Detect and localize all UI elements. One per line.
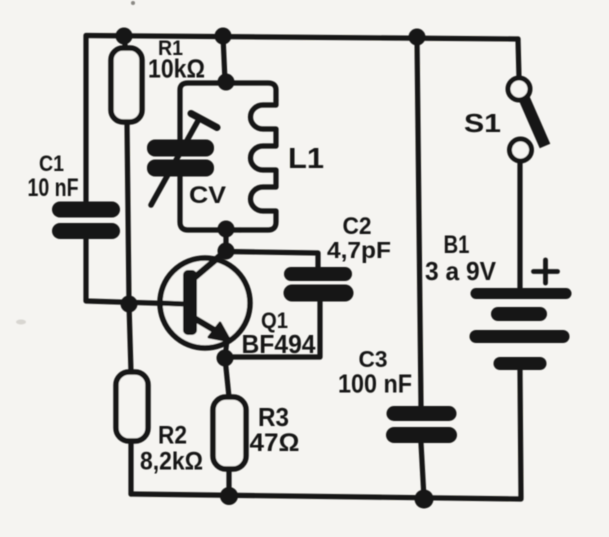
capacitor C1 [60,210,112,232]
wire R1 top lead [122,36,127,48]
svg-text:BF494: BF494 [242,329,317,359]
wire tank loop bottom and CV lower lead [180,172,240,230]
junction node bottom C3 [415,490,434,509]
junction node bottom R3 [220,487,238,505]
switch S1 bottom contact [510,139,532,161]
resistor R2 [116,372,148,441]
wire R1 bottom to R2 top [127,122,131,372]
svg-text:L1: L1 [288,143,324,175]
svg-text:C1: C1 [39,151,64,176]
wire bottom rail [131,494,521,499]
capacitor CV plates [147,140,214,177]
svg-text:10kΩ: 10kΩ [148,54,205,84]
junction node tank bottom [218,221,235,238]
battery B1 plate short bottom [500,357,540,370]
wire middle branch from top rail [223,36,225,81]
resistor R3 [213,397,246,469]
svg-text:R3: R3 [258,404,289,432]
wire top rail [86,36,518,40]
svg-text:C2: C2 [343,213,372,240]
junction node tank top [218,74,235,91]
junction node top middle [215,28,232,45]
wire C3 branch from top rail [417,37,421,406]
battery B1 plate long mid [476,330,563,343]
svg-text:10 nF: 10 nF [28,174,79,202]
junction node emitter [217,350,234,367]
wire left rail [83,36,88,204]
svg-text:S1: S1 [464,108,501,138]
svg-text:B1: B1 [444,231,470,259]
battery B1 plate short [498,307,540,321]
trimmer CV arrow [151,114,217,206]
transistor Q1 collector stroke [194,251,226,278]
svg-text:CV: CV [189,182,226,209]
wire C3 bottom lead [421,443,424,498]
wire tank loop left and top [180,83,276,141]
transistor Q1 base lead [160,303,183,304]
wire top rail right corner to S1 [518,39,519,78]
svg-text:R2: R2 [158,422,187,450]
wire collector node to C2 top plate [226,252,318,268]
wire R3 bottom lead [226,469,231,495]
transistor Q1 base bar [183,270,197,335]
junction node top C3 branch [409,29,426,46]
svg-text:8,2kΩ: 8,2kΩ [140,448,203,476]
switch S1 blade [524,98,545,146]
junction node collector [218,243,235,260]
resistor R1 [111,48,142,122]
capacitor C2 [291,274,345,293]
wire emitter node to R3 [225,358,229,397]
wire C1 to base node [86,234,183,304]
battery B1 plate long top [476,288,566,299]
switch S1 top contact [508,78,530,100]
junction node top R1 [116,28,133,45]
inductor L1 [240,100,276,230]
plus sign [534,260,558,283]
wire battery bottom to bottom rail [520,370,521,498]
transistor Q1 emitter tail wire [225,341,227,357]
svg-text:100 nF: 100 nF [338,369,412,399]
svg-text:47Ω: 47Ω [250,429,300,457]
transistor Q1 emitter stroke [194,318,216,331]
wire R2 bottom lead [128,441,133,494]
svg-text:3 a 9V: 3 a 9V [425,256,497,286]
transistor Q1 emitter arrowhead [209,323,230,341]
junction node base [121,296,138,313]
transistor Q1 circle [160,258,250,348]
wire tank bottom to collector node [223,229,228,252]
capacitor C3 [394,414,449,436]
svg-text:4,7pF: 4,7pF [327,237,391,263]
wire C2 bottom plate to emitter node [227,301,320,357]
wire S1 to battery top [517,163,522,289]
